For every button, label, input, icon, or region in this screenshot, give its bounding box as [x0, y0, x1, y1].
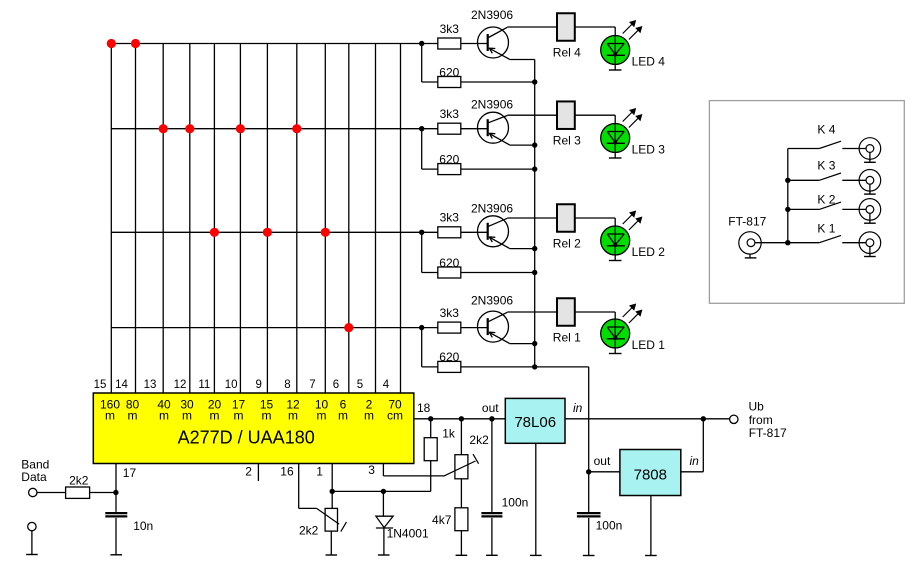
wire matrix column pin 10	[239, 44, 241, 394]
wire +8V rail to emitters	[534, 60, 536, 367]
svg-text:3k3: 3k3	[440, 211, 460, 225]
svg-text:Rel 3: Rel 3	[553, 134, 581, 148]
node antenna jack K3	[842, 170, 880, 195]
switch K 3	[788, 159, 841, 181]
svg-text:out: out	[482, 401, 499, 415]
svg-text:2N3906: 2N3906	[471, 98, 513, 112]
diode matrix junction row 4 col 160m	[107, 39, 116, 48]
pin number 5	[357, 379, 363, 391]
svg-text:2k2: 2k2	[469, 433, 489, 447]
band label 12 m	[286, 398, 300, 423]
diode matrix junction row 4 col 80m	[131, 39, 140, 48]
svg-text:Rel 2: Rel 2	[553, 237, 581, 251]
transistor Q1 2N3906	[471, 294, 513, 344]
pin 16 to trimmer wiper	[280, 464, 316, 509]
diode matrix junction row 1 col 6m	[344, 323, 353, 332]
band label 20 m	[208, 398, 222, 423]
svg-text:7: 7	[309, 379, 315, 391]
diode matrix junction row 2 col 15m	[263, 228, 272, 237]
svg-text:4: 4	[383, 379, 390, 391]
ground trimmer 2k2	[326, 531, 338, 555]
svg-text:9: 9	[255, 379, 261, 391]
wire matrix column pin 12	[189, 44, 191, 394]
pin 17	[116, 464, 136, 493]
ground under LED 4	[609, 69, 622, 71]
svg-text:100n: 100n	[596, 519, 623, 533]
pin number 12	[174, 379, 187, 391]
svg-text:2: 2	[245, 465, 252, 479]
op-amp U1 A277D / UAA180 LED driver IC	[93, 393, 414, 464]
svg-text:m: m	[317, 409, 327, 423]
ground 1N4001	[378, 554, 390, 556]
wire +8V feed from 7808 out	[588, 367, 590, 472]
pin 18 supply	[414, 401, 506, 419]
band label 160 m	[100, 398, 120, 423]
pin number 9	[255, 379, 261, 391]
svg-text:10: 10	[225, 379, 238, 391]
ground 100n right	[583, 555, 595, 557]
svg-text:LED 2: LED 2	[632, 245, 666, 259]
regulator U2 78L06	[482, 398, 583, 443]
svg-text:2k2: 2k2	[69, 473, 89, 487]
svg-text:5: 5	[357, 379, 363, 391]
node rail/620 junction stage 3	[532, 166, 537, 171]
svg-text:cm: cm	[387, 409, 403, 423]
pin 3 to pot wiper	[368, 463, 443, 477]
svg-text:Data: Data	[21, 470, 47, 484]
wire matrix row 2 (to stage 2 base)	[111, 231, 421, 233]
resistor 620 (stage 4 pull-up)	[422, 65, 535, 87]
ground 10n	[110, 554, 122, 556]
svg-text:7808: 7808	[634, 467, 667, 484]
svg-text:Rel 1: Rel 1	[553, 331, 581, 345]
ground under LED 1	[609, 353, 622, 355]
pin number 15	[94, 379, 107, 391]
svg-text:6: 6	[333, 379, 339, 391]
wire matrix column pin 6	[348, 44, 350, 394]
node A1 (matrix row 1 junction)	[419, 325, 424, 367]
switch K 2	[788, 193, 841, 210]
transistor Q2 2N3906	[471, 202, 513, 249]
wire node pin1-1N4001-1k	[330, 461, 431, 494]
wire relay to LED stage 2	[575, 218, 615, 226]
pin number 11	[198, 379, 210, 391]
wire matrix row 1 (to stage 1 base)	[111, 327, 421, 329]
svg-text:out: out	[594, 454, 611, 468]
relay Rel 4 coil	[553, 13, 581, 59]
node antenna jack K4	[842, 138, 880, 163]
transistor Q4 2N3906	[471, 8, 513, 59]
wire collector stage 1	[507, 311, 557, 313]
node A3 (matrix row 3 junction)	[419, 126, 424, 169]
node Band Data terminal	[21, 457, 49, 496]
svg-text:78L06: 78L06	[514, 414, 556, 431]
wire collector stage 4	[507, 26, 557, 28]
wire matrix column pin 4	[400, 44, 402, 394]
svg-text:in: in	[573, 401, 583, 415]
LED light arrows stage 1	[623, 304, 643, 324]
wire matrix column pin 8	[296, 44, 298, 394]
relay Rel 3 coil	[553, 101, 581, 147]
svg-text:in: in	[690, 454, 700, 468]
svg-text:18: 18	[417, 401, 431, 415]
diode matrix junction row 3 col 40m	[159, 124, 168, 133]
band label 10 m	[315, 398, 329, 423]
antenna switch box outline	[709, 101, 904, 304]
ground 4k7	[456, 554, 468, 556]
svg-text:m: m	[128, 409, 138, 423]
svg-text:LED 4: LED 4	[632, 54, 666, 68]
svg-text:620: 620	[439, 256, 459, 270]
capacitor 100n (78L06 out)	[481, 416, 528, 555]
svg-text:m: m	[288, 409, 298, 423]
resistor 4k7	[432, 508, 468, 556]
svg-text:2N3906: 2N3906	[471, 294, 513, 308]
relay Rel 2 coil	[553, 204, 581, 250]
wire matrix row 3 (to stage 3 base)	[111, 128, 421, 130]
trimmer 2k2 (pin 16 wiper)	[299, 508, 347, 537]
wire collector stage 2	[507, 217, 557, 219]
svg-text:m: m	[105, 409, 115, 423]
svg-text:2k2: 2k2	[299, 524, 319, 538]
pin number 6	[333, 379, 339, 391]
svg-text:620: 620	[439, 65, 459, 79]
svg-text:3: 3	[368, 463, 375, 477]
LED 4 green	[601, 36, 666, 70]
svg-text:8: 8	[284, 379, 290, 391]
svg-text:LED 3: LED 3	[632, 142, 666, 156]
relay Rel 1 coil	[553, 298, 581, 344]
wire emitter stage 3 to rail	[510, 142, 538, 147]
wire emitter stage 4 to rail	[510, 59, 535, 61]
wire emitter stage 1 to rail	[510, 341, 538, 346]
band label 17 m	[232, 398, 246, 423]
svg-text:m: m	[210, 409, 220, 423]
svg-text:2N3906: 2N3906	[471, 8, 513, 22]
wire matrix column pin 11	[213, 44, 215, 394]
ground 7808	[645, 496, 657, 556]
svg-text:K 2: K 2	[817, 193, 835, 207]
svg-text:100n: 100n	[502, 496, 529, 510]
capacitor 10n	[105, 493, 153, 555]
regulator U3 7808	[589, 450, 699, 496]
wire matrix column pin 9	[266, 44, 268, 394]
svg-text:LED 1: LED 1	[632, 338, 666, 352]
svg-text:m: m	[338, 409, 348, 423]
node ground terminal	[28, 522, 36, 554]
svg-text:FT-817: FT-817	[749, 426, 787, 440]
svg-text:Ub: Ub	[749, 400, 765, 414]
svg-text:2N3906: 2N3906	[471, 202, 513, 216]
svg-text:m: m	[182, 409, 192, 423]
switch K 4	[788, 123, 841, 149]
LED light arrows stage 3	[623, 108, 643, 128]
resistor 3k3 (stage 4 base)	[422, 22, 488, 49]
node A2 (matrix row 2 junction)	[419, 230, 424, 273]
diode matrix junction row 2 col 10m	[321, 228, 330, 237]
resistor 620 (stage 3 pull-up)	[422, 152, 535, 174]
diode 1N4001	[376, 491, 429, 555]
svg-text:13: 13	[144, 379, 157, 391]
wire supply input Ub	[565, 416, 730, 472]
transistor Q3 2N3906	[471, 98, 513, 145]
band label 6 m	[338, 398, 348, 423]
svg-text:m: m	[364, 409, 374, 423]
svg-text:15: 15	[94, 379, 107, 391]
potentiometer 2k2 (pin 3 wiper)	[444, 416, 490, 508]
capacitor 100n (7808 out)	[577, 469, 622, 555]
svg-text:620: 620	[439, 350, 459, 364]
ground under LED 2	[609, 260, 622, 262]
svg-text:3k3: 3k3	[440, 22, 460, 36]
ground 78L06	[530, 443, 542, 555]
node rail/620 junction stage 2	[532, 270, 537, 275]
diode matrix junction row 3 col 17m	[236, 124, 245, 133]
pin 1	[316, 464, 332, 509]
svg-text:K 3: K 3	[817, 159, 835, 173]
pin number 4	[383, 379, 390, 391]
resistor 3k3 (stage 1 base)	[422, 306, 488, 333]
wire FT-817 to switch bus	[755, 149, 791, 246]
svg-text:14: 14	[115, 379, 128, 391]
pin number 14	[115, 379, 128, 391]
resistor 1k	[424, 416, 456, 461]
ground terminal	[26, 554, 38, 556]
svg-text:4k7: 4k7	[432, 513, 452, 527]
band label 30 m	[180, 398, 194, 423]
wire relay to LED stage 3	[575, 115, 615, 123]
svg-text:3k3: 3k3	[440, 306, 460, 320]
svg-text:A277D / UAA180: A277D / UAA180	[178, 428, 315, 448]
resistor 2k2 band data	[37, 473, 119, 498]
pin number 8	[284, 379, 290, 391]
node A4 (matrix row 4 junction)	[419, 41, 424, 82]
wire matrix row 4 (to stage 4 base)	[111, 43, 421, 45]
band label 80 m	[126, 398, 140, 423]
ground 100n left	[486, 554, 498, 556]
LED 2 green	[601, 226, 666, 260]
band label 15 m	[260, 398, 274, 423]
resistor 3k3 (stage 3 base)	[422, 107, 488, 134]
svg-text:m: m	[159, 409, 169, 423]
svg-text:3k3: 3k3	[440, 107, 460, 121]
pin 2 (n.c.)	[245, 464, 258, 482]
wire matrix column pin 5	[375, 44, 377, 394]
resistor 3k3 (stage 2 base)	[422, 211, 488, 238]
svg-text:1k: 1k	[442, 427, 456, 441]
LED 3 green	[601, 124, 666, 158]
svg-text:K 4: K 4	[817, 123, 835, 137]
LED 1 green	[601, 319, 666, 353]
svg-text:1: 1	[316, 465, 323, 479]
svg-text:11: 11	[198, 379, 210, 391]
svg-text:620: 620	[439, 152, 459, 166]
diode matrix junction row 2 col 20m	[210, 228, 219, 237]
node Ub terminal	[730, 400, 787, 440]
node FT-817 antenna jack	[728, 215, 766, 258]
wire matrix column pin 14	[135, 44, 137, 394]
svg-text:17: 17	[123, 466, 137, 480]
pin number 13	[144, 379, 157, 391]
svg-text:1N4001: 1N4001	[387, 527, 429, 541]
wire relay to LED stage 1	[575, 312, 615, 319]
LED light arrows stage 4	[623, 20, 643, 40]
band label 2 m	[364, 398, 374, 423]
svg-text:10n: 10n	[133, 519, 153, 533]
wire emitter stage 2 to rail	[510, 246, 538, 251]
svg-text:FT-817: FT-817	[728, 215, 766, 229]
pin number 10	[225, 379, 238, 391]
diode matrix junction row 3 col 30m	[185, 124, 194, 133]
svg-text:Rel 4: Rel 4	[553, 46, 581, 60]
svg-text:16: 16	[280, 465, 294, 479]
svg-text:m: m	[234, 409, 244, 423]
wire matrix column pin 13	[162, 44, 164, 394]
wire matrix column pin 7	[324, 44, 326, 394]
node rail/620 junction stage 1	[532, 364, 537, 369]
svg-text:12: 12	[174, 379, 187, 391]
svg-text:m: m	[262, 409, 272, 423]
ground under LED 3	[609, 157, 622, 159]
switch K 1	[788, 222, 841, 243]
diode matrix junction row 3 col 12m	[292, 124, 301, 133]
resistor 620 (stage 1 pull-up)	[422, 350, 589, 372]
node antenna jack K2	[842, 199, 880, 224]
node rail/620 junction stage 4	[532, 79, 537, 84]
band label 70 cm	[387, 398, 403, 423]
svg-text:K 1: K 1	[817, 222, 835, 236]
wire matrix column pin 15	[110, 44, 112, 394]
pin number 7	[309, 379, 315, 391]
band label 40 m	[157, 398, 171, 423]
wire collector stage 3	[507, 114, 557, 116]
resistor 620 (stage 2 pull-up)	[422, 256, 535, 278]
LED light arrows stage 2	[623, 211, 643, 231]
wire relay to LED stage 4	[575, 27, 615, 36]
node antenna jack K1	[842, 232, 880, 257]
